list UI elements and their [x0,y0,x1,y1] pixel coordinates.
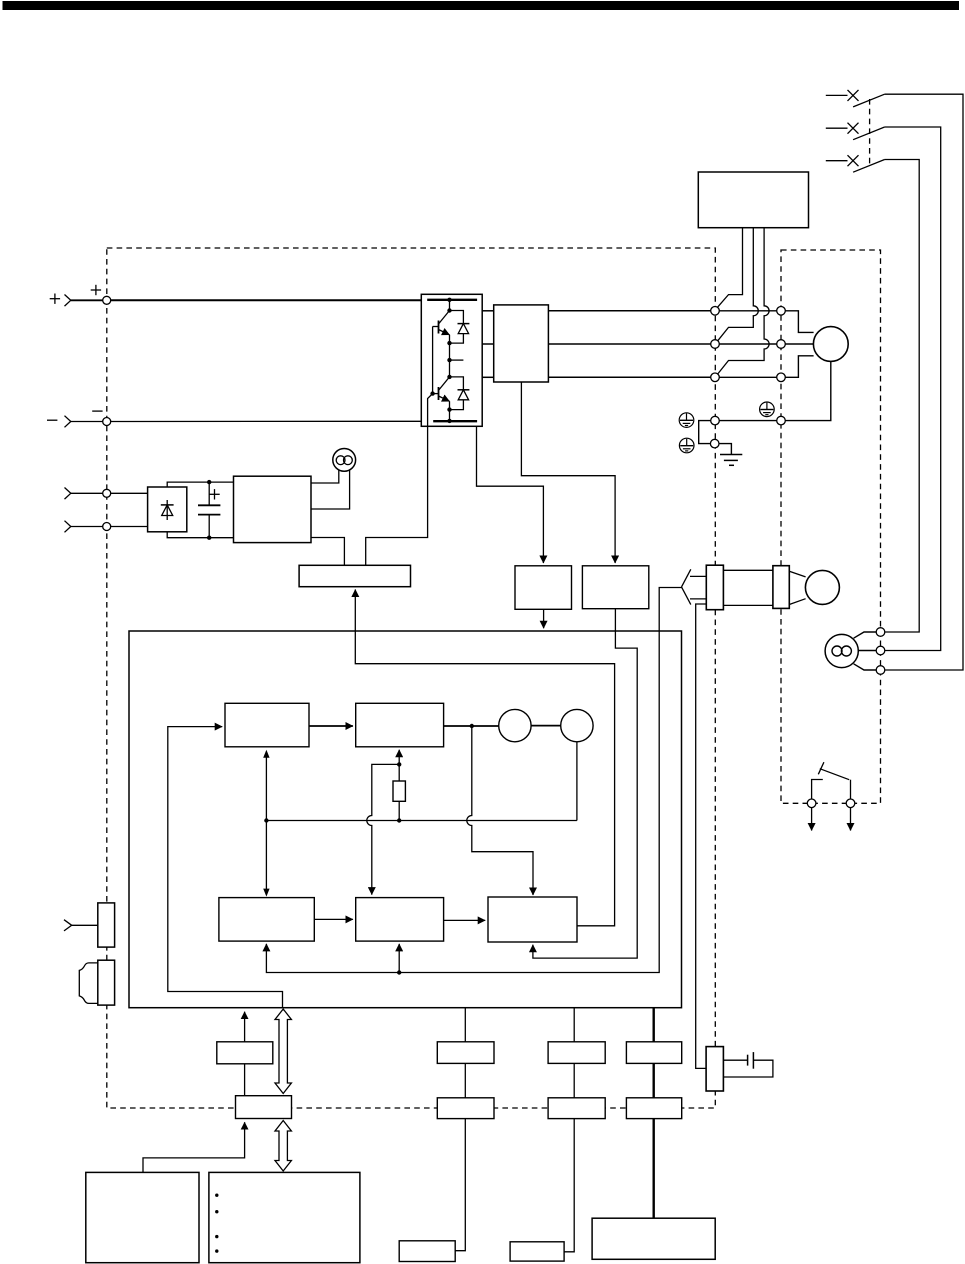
breaker pole 1 [826,90,885,107]
title bar [3,1,960,10]
wire box B output [533,609,637,958]
wire control power 2 [71,526,103,528]
circle DA2 [561,709,593,741]
external unit wire [143,1122,245,1172]
encoder [805,570,839,604]
CN2 connector [706,565,723,610]
diode D2 [450,377,470,410]
circle DA1 [499,709,531,741]
gate wire [366,327,439,566]
I/O column A wire [464,1008,466,1042]
keys box [236,1096,292,1119]
wire U phase [548,310,710,312]
resistor bottom wire [398,801,400,820]
base amplifier bar [299,565,410,586]
earth ground symbol [720,455,742,466]
+ input chevron [65,295,71,307]
capacitor + label [209,489,219,499]
wire CN1 [72,924,98,926]
external box 2 [209,1172,360,1262]
wire U amplifier to motor terminal [719,310,776,312]
block1 [225,703,309,747]
terminal PE1 amplifier [711,416,720,425]
wire block2 to D/A [444,725,499,727]
wire from junction to block5 [467,726,533,895]
control box [129,631,682,1008]
I/O box 3 [399,1241,455,1262]
terminal W motor [777,373,786,382]
stub U [482,310,494,312]
breaker pole 3 [826,155,885,172]
I/O column A box upper [437,1042,494,1064]
wire DA2 down [576,742,578,821]
MC pole V wire with hop and blade [717,228,758,342]
I/O column C wire [653,1008,655,1042]
motor ground wire [785,361,831,420]
encoder coupling [789,571,805,577]
dots in box 2 [215,1194,218,1253]
hollow arrow bus 2 [275,1121,291,1172]
thermal terminal 2 [846,799,855,808]
terminal V amplifier [711,340,720,349]
thermal protector leads [812,780,823,800]
wire detector to box B [521,382,615,563]
CN3 connector [98,960,115,1005]
encoder cable [723,569,773,571]
PE symbol 2 [679,438,694,453]
CN3 plug [79,963,98,1004]
fan terminal 1 [876,628,885,637]
block2 [356,703,444,747]
stub V [482,343,494,345]
wire breaker pole2 to fan terminal middle [885,127,941,651]
- input chevron [65,416,71,428]
PE symbol 1 [679,413,694,428]
rail rectifier bottom [167,532,233,538]
transistor Q1 [439,311,450,344]
fan lead middle [858,650,876,652]
feedback wire lower [266,588,681,973]
terminal W amplifier [711,373,720,382]
stub W [482,376,494,378]
battery loop [723,1060,773,1077]
I/O column A box lower [437,1098,494,1119]
diode D1 [450,311,470,344]
rectifier diode [161,500,174,520]
cooling fan [825,634,858,667]
control power chevron 1 [65,488,71,500]
thermal terminal 1 [807,799,816,808]
wire breaker pole3 to fan terminal top [885,160,920,633]
MC pole W wire with hops and blade [717,228,769,375]
mid horizontal wire [266,820,577,822]
PE wire amplifier to motor [719,420,776,422]
module center rail [447,298,451,424]
block3 [219,898,314,942]
I/O column A lower wire [455,1119,465,1251]
block4 [356,898,444,942]
wire P bus [111,299,428,301]
motor enclosure (dashed) [781,250,881,803]
battery cell [747,1055,749,1066]
input chevron CN1 [64,920,72,931]
wire junction to block4 [367,764,399,894]
terminal PE2 amplifier [710,439,719,448]
wire breaker pole1 to fan terminal bottom [885,94,963,670]
capacitor C [198,480,220,540]
transistor Q2 [439,377,450,410]
rail rectifier top [167,482,233,487]
wire PSU to base amplifier [311,538,344,566]
control power supply box [234,476,312,542]
charge lamp wire right [311,470,350,509]
I/O column C box upper [626,1042,681,1064]
magnetic contactor MC box [698,172,808,228]
MC pole U wire and blade [717,228,743,309]
wire W into motor [785,356,813,378]
terminal L21 [103,523,111,531]
+ terminal label [91,285,101,295]
current detector box [494,305,549,382]
wire N bus [111,420,434,422]
servo motor M [813,327,848,362]
command input wire [168,727,283,1008]
feedback branch to block4 [398,944,400,973]
amplifier enclosure (dashed) [107,248,716,1108]
wire to rectifier 2 [111,526,148,528]
module output tap [450,359,464,361]
control power chevron 2 [65,521,71,533]
wire W phase [548,376,710,378]
terminal U amplifier [711,307,720,316]
PE bracket [699,421,711,444]
display column arrow [244,1012,246,1042]
hollow arrow encoder data [682,569,707,604]
wire V phase [548,343,710,345]
+ input label [50,294,60,304]
wire DA1 to DA2 [531,725,561,727]
wire block4 to block5 [444,919,486,921]
resistor [393,781,405,801]
terminal N [103,418,111,426]
I/O column C box lower [626,1098,681,1119]
terminal PE motor [777,416,786,425]
external box 1 [86,1172,199,1262]
terminal U motor [777,307,786,316]
I/O box 4 [510,1242,564,1261]
wire U into motor [785,311,813,333]
- input label [47,419,57,421]
rectifier box [148,487,187,532]
N bus inside module [433,420,477,422]
I/O column C lower wire [653,1119,655,1219]
display to keys wire [244,1064,246,1096]
fan lead top [854,632,877,638]
terminal P [103,296,111,304]
I/O column B box upper [548,1042,605,1064]
controller box [592,1218,715,1259]
wire PWM to base amplifier [355,590,614,926]
wire + input [71,299,103,301]
battery connector [706,1047,723,1091]
P bus inside module [427,299,477,301]
charge lamp [333,449,356,472]
circuit breaker NFB linkage (dashed) [869,99,871,167]
I/O column B box lower [548,1098,605,1119]
wire control power 1 [71,492,103,494]
wire module sense to box A [477,426,544,563]
thermal protector tick [818,762,824,774]
overcurrent box A [515,566,572,610]
thermal output arrows [811,808,813,831]
encoder connector [773,566,789,609]
wire block1 to block2 [309,725,353,727]
breaker pole 2 [826,123,885,140]
wire V amplifier to motor terminal [719,343,776,345]
fan lead bottom [854,664,877,670]
resistor top wire [398,764,400,781]
wire block1-block3 double arrow [263,750,269,897]
- terminal label [92,410,102,412]
current detection box B [582,566,648,609]
wire box A output [543,609,545,628]
block5 [488,897,577,942]
fan terminal 2 [876,646,885,655]
thermal protector blade [820,769,849,780]
CN1 connector [98,903,115,947]
wire - input [71,421,103,423]
I/O column B wire [573,1008,575,1042]
terminal L11 [103,489,111,497]
PE symbol 3 [760,402,775,417]
wire block3 to block4 [314,918,353,920]
battery feed wire [696,604,707,1068]
I/O column B lower wire [564,1119,574,1252]
charge lamp wire left [311,470,339,483]
wire resistor junction to block2 [398,750,400,765]
fan terminal 3 [876,666,885,675]
wire V into motor [785,343,813,345]
IGBT power module box [421,294,482,426]
terminal V motor [777,340,786,349]
earth wire [719,444,731,455]
wire W amplifier to motor terminal [719,376,776,378]
hollow arrow bus 1 [275,1009,291,1094]
display box [217,1042,273,1064]
wire to rectifier 1 [111,492,148,494]
